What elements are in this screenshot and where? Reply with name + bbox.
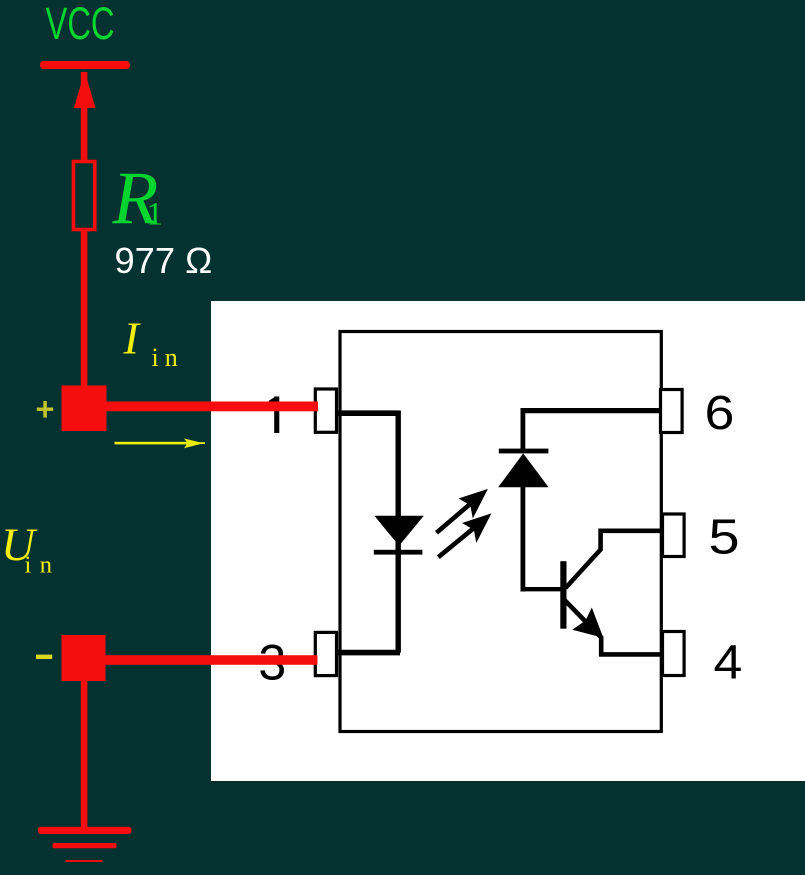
svg-text:I: I — [123, 313, 142, 364]
svg-text:1: 1 — [147, 197, 164, 233]
svg-text:6: 6 — [705, 386, 735, 440]
svg-text:5: 5 — [709, 510, 740, 565]
svg-text:VCC: VCC — [46, 0, 115, 49]
svg-text:in: in — [25, 552, 61, 579]
svg-text:977 Ω: 977 Ω — [115, 240, 213, 281]
svg-text:in: in — [152, 343, 184, 372]
svg-text:4: 4 — [714, 635, 743, 689]
